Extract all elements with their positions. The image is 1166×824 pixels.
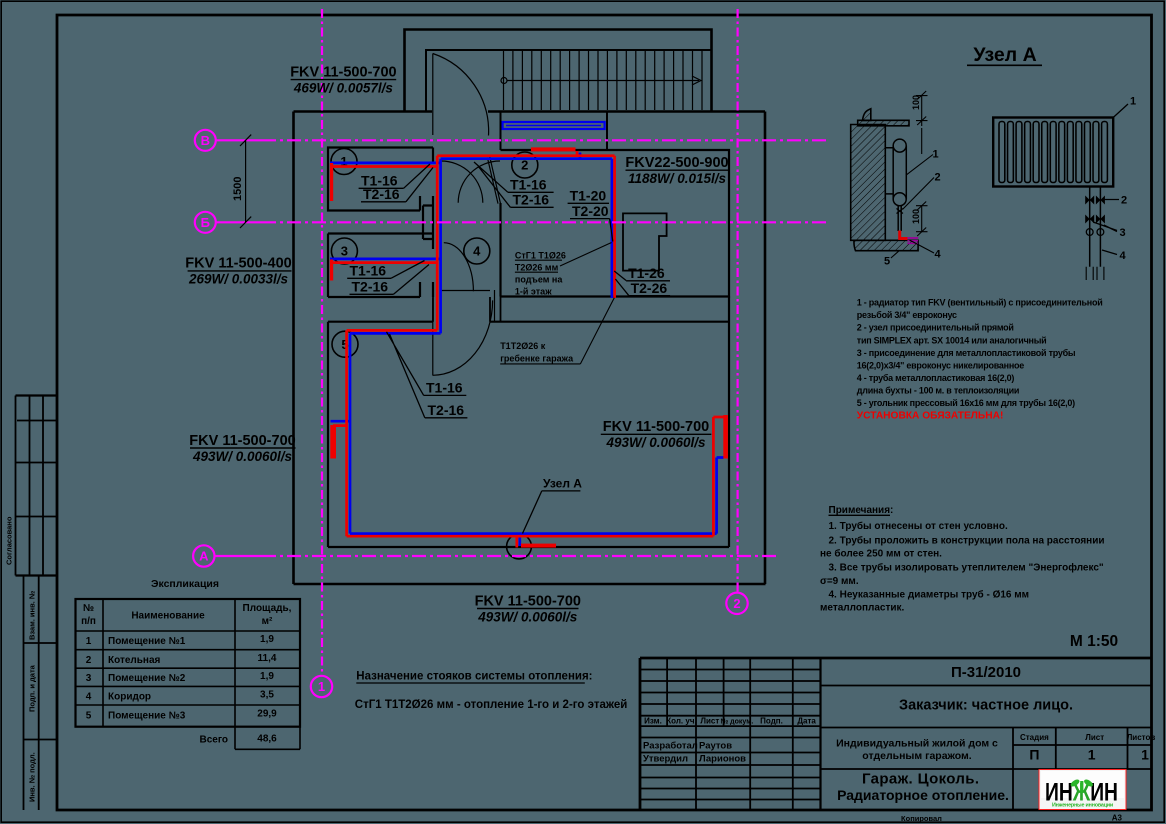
- svg-text:3. Все трубы изолировать утепл: 3. Все трубы изолировать утеплителем "Эн…: [829, 562, 1104, 574]
- svg-text:2: 2: [86, 655, 92, 666]
- svg-text:4. Неуказанные диаметры труб -: 4. Неуказанные диаметры труб - Ø16 мм: [829, 589, 1030, 601]
- svg-text:1,9: 1,9: [260, 634, 274, 645]
- svg-text:29,9: 29,9: [257, 709, 277, 720]
- svg-text:2: 2: [1121, 195, 1127, 207]
- svg-text:тип SIMPLEX арт. SX 10014 или: тип SIMPLEX арт. SX 10014 или аналогичны…: [857, 335, 1047, 345]
- svg-text:1: 1: [1088, 747, 1096, 763]
- svg-text:4: 4: [935, 249, 942, 261]
- svg-text:Коридор: Коридор: [108, 692, 151, 703]
- svg-text:А: А: [199, 549, 209, 564]
- svg-text:п/п: п/п: [81, 616, 96, 627]
- svg-text:1-й этаж: 1-й этаж: [515, 286, 552, 296]
- svg-text:Всего: Всего: [200, 735, 229, 746]
- svg-text:№: №: [83, 603, 94, 614]
- svg-text:В: В: [201, 133, 210, 148]
- svg-text:Ларионов: Ларионов: [699, 754, 746, 765]
- svg-text:м²: м²: [262, 616, 273, 627]
- svg-text:отдельным гаражом.: отдельным гаражом.: [862, 750, 971, 762]
- svg-text:1500: 1500: [232, 177, 244, 201]
- svg-text:3: 3: [86, 673, 92, 684]
- svg-text:1188W/ 0.015l/s: 1188W/ 0.015l/s: [628, 171, 727, 186]
- svg-text:3: 3: [341, 244, 348, 259]
- svg-text:1,9: 1,9: [260, 671, 274, 682]
- svg-text:Лист: Лист: [700, 717, 719, 726]
- svg-text:Согласовано: Согласовано: [5, 516, 14, 565]
- svg-text:не более 250 мм от стен.: не более 250 мм от стен.: [820, 548, 942, 560]
- svg-text:СтГ1 Т1Т2Ø26 мм - отопление 1-: СтГ1 Т1Т2Ø26 мм - отопление 1-го и 2-го …: [355, 699, 628, 711]
- svg-text:Помещение №1: Помещение №1: [108, 636, 186, 647]
- svg-text:Стадия: Стадия: [1020, 733, 1049, 742]
- svg-text:Заказчик: частное лицо.: Заказчик: частное лицо.: [899, 698, 1073, 714]
- svg-text:Т2-16: Т2-16: [513, 192, 550, 208]
- svg-text:Инженерные инновации: Инженерные инновации: [1052, 803, 1113, 809]
- svg-text:Узел А: Узел А: [543, 477, 582, 491]
- svg-text:Кол. уч.: Кол. уч.: [666, 717, 696, 726]
- svg-text:1 - радиатор тип FKV (вентильн: 1 - радиатор тип FKV (вентильный) с прис…: [857, 298, 1103, 308]
- svg-text:Гараж. Цоколь.: Гараж. Цоколь.: [862, 771, 979, 788]
- svg-text:1. Трубы отнесены от стен усло: 1. Трубы отнесены от стен условно.: [829, 520, 1008, 532]
- svg-text:Экспликация: Экспликация: [151, 578, 219, 590]
- svg-text:А3: А3: [1112, 814, 1123, 823]
- svg-text:1: 1: [318, 679, 325, 694]
- svg-text:Котельная: Котельная: [108, 655, 161, 666]
- svg-text:100: 100: [911, 95, 921, 110]
- svg-text:5: 5: [884, 256, 890, 268]
- svg-text:3,5: 3,5: [260, 690, 274, 701]
- svg-text:469W/ 0.0057l/s: 469W/ 0.0057l/s: [293, 81, 394, 96]
- svg-text:Подп. и дата: Подп. и дата: [28, 664, 37, 712]
- svg-text:4: 4: [1120, 250, 1127, 262]
- svg-text:4: 4: [473, 244, 481, 259]
- svg-text:Т1-26: Т1-26: [628, 265, 665, 281]
- svg-text:Примечания:: Примечания:: [829, 505, 894, 516]
- svg-text:Наименование: Наименование: [131, 611, 205, 622]
- svg-text:Площадь,: Площадь,: [243, 603, 292, 614]
- svg-text:3: 3: [1120, 227, 1126, 239]
- svg-text:2: 2: [935, 172, 941, 184]
- svg-text:металлопластик.: металлопластик.: [820, 603, 905, 614]
- svg-text:Т1-16: Т1-16: [426, 380, 463, 396]
- svg-text:Изм.: Изм.: [644, 717, 662, 726]
- svg-text:Т2-20: Т2-20: [572, 203, 609, 219]
- svg-text:УСТАНОВКА ОБЯЗАТЕЛЬНА!: УСТАНОВКА ОБЯЗАТЕЛЬНА!: [857, 411, 1004, 422]
- svg-text:Назначение стояков системы ото: Назначение стояков системы отопления:: [356, 671, 592, 683]
- svg-text:493W/ 0.0060l/s: 493W/ 0.0060l/s: [605, 435, 706, 450]
- svg-text:Утвердил: Утвердил: [643, 754, 688, 765]
- svg-text:2. Трубы проложить в конструкц: 2. Трубы проложить в конструкции пола на…: [829, 535, 1105, 547]
- svg-text:FKV 11-500-700: FKV 11-500-700: [189, 433, 295, 449]
- svg-text:Т1-16: Т1-16: [510, 177, 547, 193]
- svg-text:1: 1: [86, 636, 92, 647]
- svg-text:Б: Б: [201, 215, 210, 230]
- svg-text:Копировал: Копировал: [901, 814, 942, 823]
- svg-text:Т2-16: Т2-16: [428, 402, 465, 418]
- svg-text:493W/ 0.0060l/s: 493W/ 0.0060l/s: [192, 449, 293, 464]
- svg-text:σ=9 мм.: σ=9 мм.: [820, 576, 859, 587]
- svg-text:493W/ 0.0060l/s: 493W/ 0.0060l/s: [477, 610, 578, 625]
- svg-text:Лист: Лист: [1085, 733, 1104, 742]
- svg-text:Помещение №3: Помещение №3: [108, 711, 186, 722]
- svg-text:Т1Т2Ø26 к: Т1Т2Ø26 к: [500, 341, 546, 351]
- svg-text:Листов: Листов: [1127, 733, 1156, 742]
- svg-text:1: 1: [1141, 747, 1149, 763]
- svg-text:Т2-16: Т2-16: [352, 279, 389, 295]
- svg-text:100: 100: [911, 209, 921, 224]
- svg-text:1: 1: [933, 149, 939, 161]
- svg-text:3 - присоединение для металлоп: 3 - присоединение для металлопластиковой…: [857, 348, 1076, 358]
- svg-text:Т2-26: Т2-26: [631, 280, 668, 296]
- svg-text:FKV22-500-900: FKV22-500-900: [625, 155, 728, 171]
- svg-text:269W/ 0.0033l/s: 269W/ 0.0033l/s: [188, 272, 289, 287]
- svg-text:FKV 11-500-700: FKV 11-500-700: [603, 419, 709, 435]
- svg-text:FKV 11-500-700: FKV 11-500-700: [475, 594, 581, 610]
- svg-text:Дата: Дата: [797, 717, 816, 726]
- svg-text:48,6: 48,6: [257, 734, 277, 745]
- svg-text:16(2,0)х3/4" евроконус никелир: 16(2,0)х3/4" евроконус никелированное: [857, 360, 1024, 370]
- svg-text:Т1-20: Т1-20: [570, 188, 607, 204]
- svg-text:Раутов: Раутов: [699, 741, 732, 752]
- svg-text:2 - узел присоединительный пря: 2 - узел присоединительный прямой: [857, 323, 1014, 333]
- svg-text:2: 2: [733, 596, 740, 611]
- svg-text:4 - труба металлопластиковая 1: 4 - труба металлопластиковая 16(2,0): [857, 373, 1015, 383]
- svg-text:№ докум.: № докум.: [720, 718, 753, 726]
- svg-text:Узел А: Узел А: [973, 44, 1036, 66]
- svg-text:резьбой 3/4" евроконус: резьбой 3/4" евроконус: [857, 310, 957, 320]
- svg-text:5 - угольник прессовый 16х16 м: 5 - угольник прессовый 16х16 мм для труб…: [857, 398, 1075, 408]
- svg-text:FKV 11-500-400: FKV 11-500-400: [185, 256, 291, 272]
- svg-text:Т1-16: Т1-16: [350, 263, 387, 279]
- svg-text:гребенке гаража: гребенке гаража: [500, 353, 574, 363]
- svg-text:5: 5: [86, 711, 92, 722]
- svg-text:длина бухты - 100 м. в теплоиз: длина бухты - 100 м. в теплоизоляции: [857, 386, 1019, 396]
- svg-text:Взам. инв. №: Взам. инв. №: [28, 591, 37, 640]
- svg-text:11,4: 11,4: [258, 653, 277, 664]
- svg-text:М 1:50: М 1:50: [1070, 633, 1118, 650]
- svg-text:Инв. № подл.: Инв. № подл.: [28, 752, 37, 802]
- svg-text:подъем на: подъем на: [515, 274, 563, 284]
- svg-text:Помещение №2: Помещение №2: [108, 673, 186, 684]
- svg-text:П: П: [1029, 747, 1039, 763]
- svg-text:4: 4: [86, 692, 92, 703]
- svg-text:1: 1: [1130, 96, 1136, 108]
- svg-text:Подп.: Подп.: [760, 717, 783, 726]
- svg-text:FKV 11-500-700: FKV 11-500-700: [290, 65, 396, 81]
- svg-text:Радиаторное отопление.: Радиаторное отопление.: [837, 787, 1009, 803]
- svg-text:СтГ1 Т1Ø26: СтГ1 Т1Ø26: [515, 250, 566, 260]
- svg-text:Индивидуальный жилой дом с: Индивидуальный жилой дом с: [836, 738, 998, 750]
- svg-text:Разработал: Разработал: [643, 741, 698, 752]
- svg-text:П-31/2010: П-31/2010: [951, 664, 1021, 681]
- svg-text:Т2Ø26 мм: Т2Ø26 мм: [515, 262, 559, 272]
